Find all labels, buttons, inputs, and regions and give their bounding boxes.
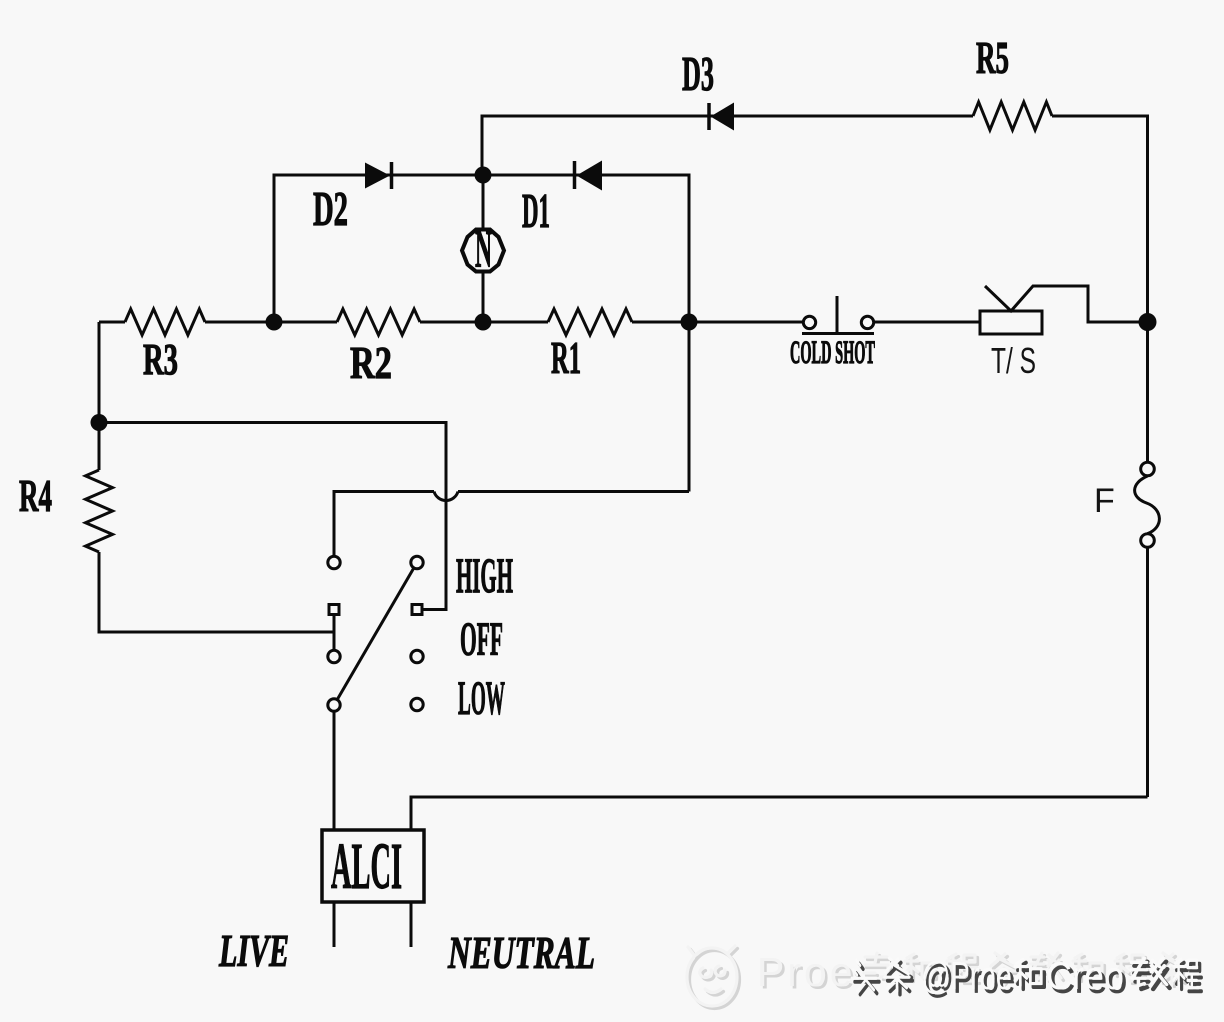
svg-text:T/ S: T/ S (991, 340, 1036, 381)
svg-text:D1: D1 (522, 183, 550, 238)
svg-text:R1: R1 (551, 332, 581, 383)
svg-text:F: F (1094, 482, 1115, 520)
svg-text:R2: R2 (350, 337, 392, 388)
svg-text:Proe: Proe (757, 949, 856, 995)
svg-text:R3: R3 (143, 335, 178, 384)
svg-text:COLD SHOT: COLD SHOT (790, 335, 875, 371)
svg-text:Creo: Creo (1046, 955, 1124, 998)
svg-text:R4: R4 (19, 470, 52, 521)
svg-text:D2: D2 (313, 181, 348, 236)
svg-text:NEUTRAL: NEUTRAL (447, 928, 595, 978)
svg-text:OFF: OFF (460, 613, 503, 666)
svg-text:LIVE: LIVE (218, 926, 289, 976)
svg-text:HIGH: HIGH (456, 547, 513, 603)
svg-text:R5: R5 (976, 33, 1009, 83)
svg-text:ALCI: ALCI (331, 830, 402, 903)
svg-text:D3: D3 (682, 46, 714, 101)
svg-text:N: N (475, 221, 492, 279)
svg-text:LOW: LOW (458, 672, 505, 725)
svg-text:@Proe: @Proe (921, 955, 1012, 998)
